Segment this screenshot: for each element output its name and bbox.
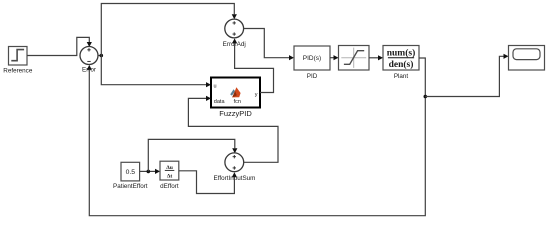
- svg-text:PatientEffort: PatientEffort: [113, 183, 148, 190]
- svg-text:dEffort: dEffort: [160, 183, 179, 190]
- node A (Error output junction): [100, 54, 104, 58]
- svg-text:PID: PID: [307, 73, 318, 80]
- svg-text:Δt: Δt: [167, 173, 173, 179]
- svg-text:Plant: Plant: [394, 73, 409, 80]
- source block Reference (step): [3, 47, 33, 75]
- constant block PatientEffort value 0.5: [113, 162, 148, 190]
- wire Plant output down to node B and feedback loop to Error sum bottom input: [87, 58, 426, 216]
- svg-text:Reference: Reference: [3, 68, 33, 75]
- svg-text:u: u: [214, 84, 217, 90]
- controller block PID: [294, 46, 330, 80]
- svg-text:den(s): den(s): [389, 59, 414, 70]
- wire ErrorAdj output to PID input: [244, 29, 294, 61]
- wire node C up and over to EffortInputSum top input: [148, 139, 237, 171]
- svg-text:data: data: [214, 99, 226, 105]
- wire dEffort output under to EffortInputSum bottom input: [179, 171, 237, 194]
- MATLAB function block FuzzyPID: [211, 78, 260, 118]
- svg-text:num(s): num(s): [387, 47, 416, 58]
- wire PID output to Saturation input: [330, 55, 339, 60]
- node C (PatientEffort output junction): [147, 170, 151, 174]
- svg-text:fcn: fcn: [234, 99, 241, 105]
- svg-text:0.5: 0.5: [126, 169, 136, 176]
- node B (Plant output junction): [424, 95, 428, 99]
- wire Reference output to Error sum top input: [27, 37, 92, 55]
- saturation block: [339, 46, 370, 71]
- wire EffortInputSum output around to FuzzyPID data input: [188, 96, 278, 163]
- svg-text:FuzzyPID: FuzzyPID: [219, 109, 252, 118]
- wire Error output to junction node A: [98, 55, 101, 57]
- wire node A up and over to ErrorAdj sum top input: [101, 4, 237, 56]
- wire PatientEffort output to dEffort input via node C: [140, 169, 160, 174]
- wire node A down to FuzzyPID u input: [101, 56, 211, 88]
- svg-text:PID(s): PID(s): [303, 55, 321, 62]
- summing junction Error: [80, 47, 98, 74]
- wire node B to Scope input: [425, 54, 508, 97]
- summing junction ErrorAdj: [223, 19, 246, 48]
- wire FuzzyPID y output up to ErrorAdj bottom input: [232, 38, 274, 92]
- derivative block dEffort: [160, 161, 179, 190]
- transfer function block Plant num(s)/den(s): [383, 46, 419, 80]
- scope block: [509, 46, 545, 71]
- svg-text:y: y: [255, 92, 258, 98]
- summing junction EffortInputSum: [214, 153, 256, 182]
- wire Saturation output to Plant input: [369, 55, 383, 60]
